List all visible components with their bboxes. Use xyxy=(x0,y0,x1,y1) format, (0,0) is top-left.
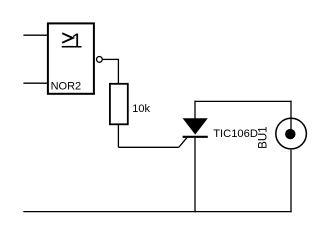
wire gate diagonal to thyristor xyxy=(179,137,187,147)
wire NOR output horizontal xyxy=(103,58,119,60)
wire gate horizontal xyxy=(118,146,178,148)
wire anode vertical xyxy=(194,101,196,119)
NOR gate output inversion bubble xyxy=(97,57,103,63)
socket BU1 outer circle xyxy=(276,118,307,149)
wire right vertical lower xyxy=(290,150,292,212)
svg-text:TIC106D: TIC106D xyxy=(213,128,258,140)
svg-text:NOR2: NOR2 xyxy=(51,81,82,93)
socket BU1 center dot xyxy=(285,129,295,139)
svg-text:BU1: BU1 xyxy=(257,126,270,149)
thyristor D1 anode triangle xyxy=(183,118,208,134)
svg-text:1: 1 xyxy=(71,30,82,53)
NOR gate U1 body xyxy=(48,23,94,93)
wire right vertical upper xyxy=(290,101,292,131)
NOR gate OR-function symbol underline of &#8805; xyxy=(62,46,73,48)
wire resistor bottom vertical xyxy=(117,124,119,147)
wire NOR output down to resistor xyxy=(117,59,119,83)
wire input 2 of NOR gate xyxy=(23,82,47,84)
wire bottom bus xyxy=(23,211,291,213)
wire top horizontal xyxy=(194,100,291,102)
thyristor D1 cathode bar xyxy=(183,136,208,138)
resistor R1 body xyxy=(110,84,128,125)
wire cathode vertical xyxy=(194,138,196,212)
svg-text:10k: 10k xyxy=(132,103,150,115)
wire input 1 of NOR gate xyxy=(23,34,47,36)
NOR gate OR-function symbol &#8805;1 : greater-than stroke xyxy=(62,33,73,42)
